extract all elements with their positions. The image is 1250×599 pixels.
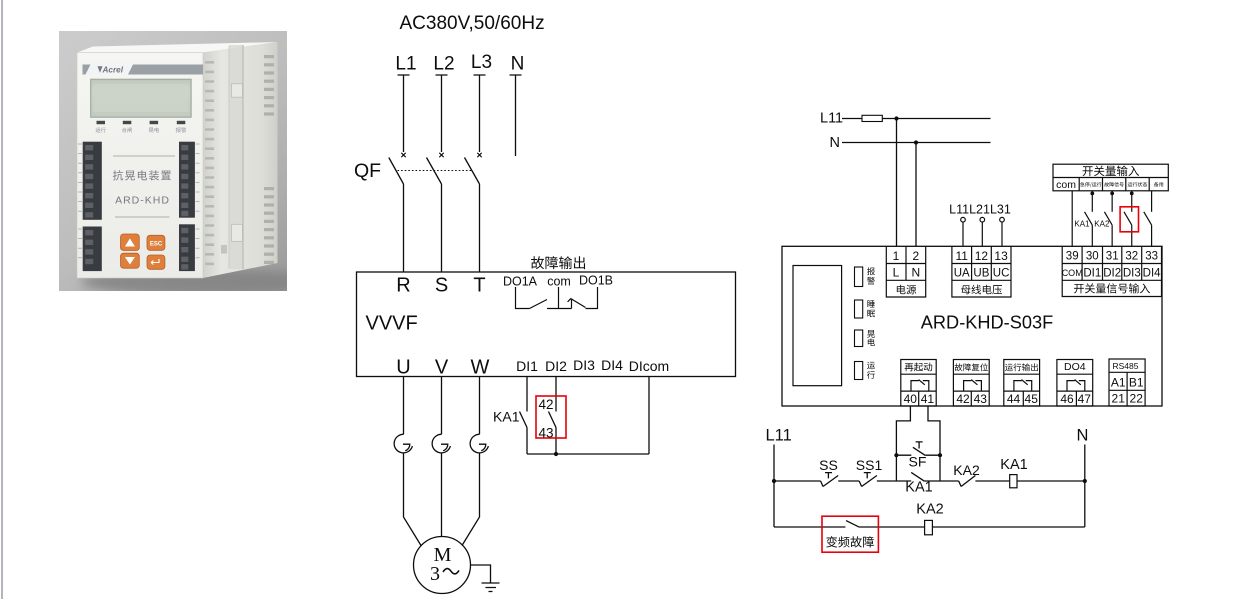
breaker QF pole 3 cross bbox=[477, 153, 481, 157]
header 备用 label bbox=[1154, 182, 1163, 187]
rung1 wire L11 to SS bbox=[774, 480, 821, 482]
svg-text:COM: COM bbox=[1062, 268, 1083, 278]
terminal circle L11 bbox=[961, 217, 966, 222]
coil KA1 bbox=[1010, 475, 1017, 488]
开关量输入 header box bbox=[1053, 164, 1168, 191]
junction rung1 L11 bbox=[772, 479, 776, 483]
LCD bbox=[91, 79, 191, 117]
svg-text:B1: B1 bbox=[1129, 376, 1144, 390]
buttons bbox=[121, 234, 165, 269]
wire N drop to terminal 2 bbox=[915, 143, 917, 247]
junction DI2/common rail bbox=[554, 452, 558, 456]
wire DI2 down bbox=[555, 377, 557, 412]
display window rect bbox=[793, 266, 842, 386]
svg-text:W: W bbox=[471, 357, 490, 379]
svg-text:com: com bbox=[547, 275, 571, 289]
wire U to motor bbox=[404, 454, 422, 546]
svg-text:L2: L2 bbox=[433, 54, 454, 75]
wire DIcom down bbox=[648, 377, 650, 455]
svg-text:41: 41 bbox=[921, 392, 935, 406]
pushbutton SS1 (NC) bbox=[859, 473, 877, 487]
wire DI1 input upper bbox=[1091, 191, 1093, 212]
junction N bbox=[914, 140, 918, 144]
wire L11 drop to terminal 1 bbox=[896, 119, 898, 247]
wire L1 to R bbox=[403, 184, 405, 272]
svg-text:11: 11 bbox=[955, 249, 968, 263]
ground wire from motor bbox=[471, 565, 491, 583]
wire L2 to S bbox=[441, 184, 443, 272]
pushbutton SF branch wire bbox=[896, 454, 940, 456]
svg-text:R: R bbox=[396, 275, 410, 297]
coil KA2 bbox=[925, 520, 933, 534]
svg-text:30: 30 bbox=[1086, 251, 1099, 263]
right vent slots bbox=[264, 55, 274, 264]
svg-text:47: 47 bbox=[1078, 392, 1092, 406]
svg-text:46: 46 bbox=[1060, 392, 1074, 406]
svg-text:DO1B: DO1B bbox=[579, 274, 613, 288]
svg-text:DI2: DI2 bbox=[1103, 268, 1121, 280]
svg-text:L: L bbox=[893, 266, 900, 280]
wire L3 to T bbox=[479, 184, 481, 272]
header 运行状态 label bbox=[1128, 182, 1148, 187]
rung2 wire coil KA2 to N bbox=[932, 526, 1084, 528]
left window border line bbox=[1, 0, 3, 599]
contact KA2 (NC) bbox=[959, 476, 976, 487]
rung1 wire KA1 to KA2 bbox=[924, 480, 958, 482]
svg-text:L1: L1 bbox=[395, 54, 416, 75]
wire DI4 input upper bbox=[1151, 191, 1153, 212]
svg-text:45: 45 bbox=[1025, 392, 1039, 406]
terminal block 母线电压 (11,12,13/UA,UB,UC) bbox=[952, 246, 1011, 297]
svg-text:L3: L3 bbox=[471, 52, 492, 73]
wire DI2 lower bbox=[555, 428, 557, 455]
svg-text:S: S bbox=[435, 275, 448, 297]
wire U down bbox=[403, 377, 405, 435]
svg-text:32: 32 bbox=[1125, 251, 1138, 263]
current transformer on U bbox=[394, 434, 412, 453]
svg-text:39: 39 bbox=[1066, 251, 1079, 263]
svg-text:KA1: KA1 bbox=[1000, 457, 1027, 473]
contact KA1 (NO) at DI1 bbox=[520, 412, 528, 428]
svg-text:SS: SS bbox=[819, 457, 838, 473]
highlight box terminals 42/43 bbox=[536, 396, 566, 438]
svg-text:KA2: KA2 bbox=[953, 462, 980, 478]
LED indicator 2 bbox=[855, 300, 863, 318]
contact 变频故障 (NO) bbox=[846, 521, 859, 528]
svg-text:AC380V,50/60Hz: AC380V,50/60Hz bbox=[400, 13, 545, 34]
LED4 label 运行 bbox=[867, 362, 875, 369]
highlight box 变频故障 contact bbox=[822, 516, 878, 552]
contact KA2 (input DI2) bbox=[1104, 212, 1112, 225]
ARD-KHD-S03F main box bbox=[782, 246, 1162, 406]
svg-text:KA1: KA1 bbox=[493, 409, 520, 425]
LED indicator 4 bbox=[855, 362, 863, 380]
rung1 wire coil KA1 to N bbox=[1017, 480, 1085, 482]
svg-text:N: N bbox=[911, 266, 920, 280]
svg-text:L11L21L31: L11L21L31 bbox=[949, 203, 1011, 217]
terminal block 开关量信号输入 (39,30-33/COM,DI1-DI4) bbox=[1062, 246, 1161, 296]
svg-text:DI3: DI3 bbox=[1123, 268, 1141, 280]
svg-text:13: 13 bbox=[994, 249, 1008, 263]
wire DI3 input upper bbox=[1131, 191, 1133, 212]
wire V to motor bbox=[441, 454, 443, 537]
junction SF-left bbox=[894, 453, 898, 457]
current transformer on W bbox=[470, 434, 488, 453]
contact inverter-fault (input DI3) bbox=[1124, 212, 1132, 225]
breaker QF pole 1 blade bbox=[389, 158, 404, 185]
label 故障输出 bbox=[531, 256, 585, 269]
contact 变频故障 label bbox=[826, 536, 874, 547]
svg-text:DI3: DI3 bbox=[573, 357, 595, 373]
svg-text:KA1: KA1 bbox=[1074, 220, 1090, 229]
svg-text:UC: UC bbox=[993, 268, 1010, 280]
junction dot DI1 input bbox=[1090, 192, 1094, 196]
svg-text:KA1: KA1 bbox=[905, 480, 932, 496]
wire L11 drop (bottom) bbox=[773, 445, 775, 528]
header 开关量输入 label bbox=[1083, 166, 1139, 177]
wire from terminal 41 bbox=[928, 406, 940, 481]
svg-text:40: 40 bbox=[904, 392, 918, 406]
LED indicator 1 bbox=[855, 267, 863, 287]
svg-text:21: 21 bbox=[1112, 392, 1126, 406]
output group 运行输出 (44,45) bbox=[1004, 360, 1040, 407]
svg-text:DI4: DI4 bbox=[1143, 268, 1162, 280]
contact spare (input DI4) bbox=[1144, 212, 1152, 225]
front face bbox=[77, 53, 203, 279]
ground symbol bbox=[482, 583, 500, 592]
pushbutton SF blade bbox=[913, 447, 925, 455]
svg-text:DI4: DI4 bbox=[601, 357, 623, 373]
group label 母线电压 bbox=[961, 285, 1002, 295]
svg-text:com: com bbox=[1056, 179, 1076, 191]
fuse FU bbox=[862, 115, 882, 121]
svg-text:UB: UB bbox=[973, 268, 989, 280]
wire L31 tap bbox=[1001, 222, 1003, 246]
wire DI1 lower bbox=[526, 428, 528, 455]
common bottom rail bbox=[527, 453, 649, 455]
svg-text:12: 12 bbox=[975, 249, 989, 263]
svg-text:44: 44 bbox=[1007, 392, 1021, 406]
left connectors bbox=[83, 142, 102, 271]
svg-text:VVVF: VVVF bbox=[366, 313, 418, 335]
breaker QF pole 3 blade bbox=[465, 158, 480, 185]
svg-text:43: 43 bbox=[974, 392, 988, 406]
current transformer on V bbox=[432, 434, 450, 453]
svg-text:42: 42 bbox=[956, 392, 970, 406]
LED2 label 睡眠 bbox=[867, 300, 874, 307]
svg-text:SF: SF bbox=[909, 454, 927, 470]
svg-text:22: 22 bbox=[1130, 392, 1144, 406]
rung2 wire L11 to fault contact bbox=[774, 526, 845, 528]
breaker QF pole 2 cross bbox=[439, 153, 443, 157]
VVVF inverter box bbox=[357, 272, 736, 377]
motor M circle bbox=[414, 537, 471, 594]
svg-text:U: U bbox=[396, 357, 410, 379]
rung1 wire SS1 to KA1 contact bbox=[877, 480, 911, 482]
contact KA1 (input DI1) bbox=[1085, 212, 1093, 225]
rung2 wire to coil KA2 bbox=[859, 526, 924, 528]
svg-text:L11: L11 bbox=[766, 427, 792, 445]
svg-text:31: 31 bbox=[1106, 251, 1119, 263]
wire L2 drop bbox=[436, 75, 448, 152]
svg-text:DO1A: DO1A bbox=[503, 275, 538, 289]
output group 故障复位 (42,43) bbox=[953, 360, 989, 407]
svg-text:UA: UA bbox=[954, 268, 970, 280]
wire N drop bbox=[510, 75, 522, 156]
wire L11 to fuse bbox=[842, 118, 862, 120]
svg-text:42: 42 bbox=[539, 397, 554, 412]
product photo ARD-KHD device bbox=[59, 31, 287, 291]
svg-text:2: 2 bbox=[912, 249, 919, 263]
tiny terminal numbers marks bbox=[78, 144, 200, 258]
wire L3 drop bbox=[474, 75, 486, 152]
svg-text:QF: QF bbox=[354, 160, 381, 182]
svg-text:SS1: SS1 bbox=[856, 457, 883, 473]
Acrel band bbox=[83, 65, 204, 75]
svg-text:DI1: DI1 bbox=[516, 358, 538, 374]
svg-text:DI2: DI2 bbox=[545, 358, 567, 374]
wire from terminal 40 bbox=[896, 406, 910, 481]
junction dot DI3 input bbox=[1130, 192, 1134, 196]
LED3 label 晃电 bbox=[867, 330, 875, 338]
top face bbox=[77, 42, 278, 53]
wire L11 tap bbox=[962, 222, 964, 246]
wire N horizontal bbox=[842, 142, 991, 144]
wire com to terminal 39 bbox=[1071, 191, 1073, 247]
terminal circle L21 bbox=[980, 217, 985, 222]
group label 电源 bbox=[897, 285, 916, 295]
right connectors bbox=[179, 142, 195, 271]
wire N drop (bottom) bbox=[1084, 445, 1086, 528]
highlight box DI3 contact bbox=[1120, 207, 1138, 232]
comm group RS485 (A1,B1/21,22) bbox=[1109, 359, 1145, 406]
svg-text:ARD-KHD-S03F: ARD-KHD-S03F bbox=[921, 313, 1053, 333]
svg-text:43: 43 bbox=[539, 426, 554, 441]
svg-text:V: V bbox=[435, 357, 449, 379]
breaker QF linkage (dotted) bbox=[398, 170, 472, 172]
output group 再起动 (40,41) bbox=[901, 360, 936, 407]
wire W to motor bbox=[462, 454, 480, 546]
contact 42-43 (NO) at DI2 bbox=[549, 412, 557, 428]
svg-text:1: 1 bbox=[893, 249, 900, 263]
output group DO4 (46,47) bbox=[1057, 360, 1093, 407]
rung1 wire SS to SS1 bbox=[838, 480, 859, 482]
group label 开关量信号输入 bbox=[1074, 283, 1150, 293]
junction SF-right bbox=[938, 453, 942, 457]
wire W down bbox=[479, 377, 481, 435]
centre panel bbox=[113, 155, 175, 157]
junction rung1 N bbox=[1083, 479, 1087, 483]
wire DI1 down bbox=[526, 377, 528, 412]
side face bbox=[203, 42, 278, 278]
pushbutton SS (NC) bbox=[821, 473, 839, 487]
svg-text:DIcom: DIcom bbox=[629, 358, 669, 374]
LED indicator 3 bbox=[855, 330, 863, 347]
wire DI1 input lower bbox=[1091, 225, 1093, 246]
rung1 wire KA2 to coil KA1 bbox=[975, 480, 1009, 482]
svg-text:KA2: KA2 bbox=[916, 502, 943, 518]
wire L21 tap bbox=[981, 222, 983, 246]
svg-text:T: T bbox=[473, 275, 485, 297]
junction dot DI2 input bbox=[1110, 192, 1114, 196]
LED1 label 报警 bbox=[867, 267, 875, 275]
relay contact DO1A (NO) bbox=[516, 287, 548, 309]
wire DI3 input lower bbox=[1131, 225, 1133, 246]
svg-text:N: N bbox=[1077, 427, 1089, 445]
pushbutton SF actuator bbox=[916, 442, 923, 449]
relay contact DO1B (NC) bbox=[568, 287, 598, 309]
header 急停/运行 label bbox=[1080, 182, 1102, 187]
terminal block 电源 (1,2/L,N) bbox=[886, 246, 925, 297]
vent column between front and side bbox=[205, 61, 214, 265]
wire V down bbox=[441, 377, 443, 435]
terminal circle L31 bbox=[1000, 217, 1005, 222]
wire L1 drop bbox=[398, 75, 410, 152]
wire DI2 input lower bbox=[1111, 225, 1113, 246]
wire DI4 input lower bbox=[1151, 225, 1153, 246]
svg-text:KA2: KA2 bbox=[1094, 220, 1110, 229]
svg-text:A1: A1 bbox=[1111, 376, 1126, 390]
svg-text:N: N bbox=[511, 54, 525, 75]
header 故障信号 label bbox=[1104, 182, 1123, 187]
breaker QF pole 1 cross bbox=[401, 153, 405, 157]
svg-text:L11: L11 bbox=[820, 111, 843, 127]
side groove + DIN clip tabs bbox=[229, 45, 243, 269]
svg-text:N: N bbox=[830, 135, 840, 151]
wire fuse to right bbox=[882, 118, 990, 120]
svg-text:DO4: DO4 bbox=[1064, 361, 1086, 373]
svg-text:DI1: DI1 bbox=[1083, 268, 1101, 280]
contact KA1 (NO, seal-in) bbox=[911, 472, 924, 481]
svg-text:33: 33 bbox=[1145, 251, 1158, 263]
svg-text:RS485: RS485 bbox=[1113, 361, 1139, 371]
wire DI2 input upper bbox=[1111, 191, 1113, 212]
junction L11 bbox=[894, 116, 898, 120]
svg-text:3: 3 bbox=[430, 563, 440, 585]
relay contact com pole bbox=[547, 287, 572, 309]
LEDs bbox=[97, 121, 186, 124]
breaker QF pole 2 blade bbox=[427, 158, 442, 185]
